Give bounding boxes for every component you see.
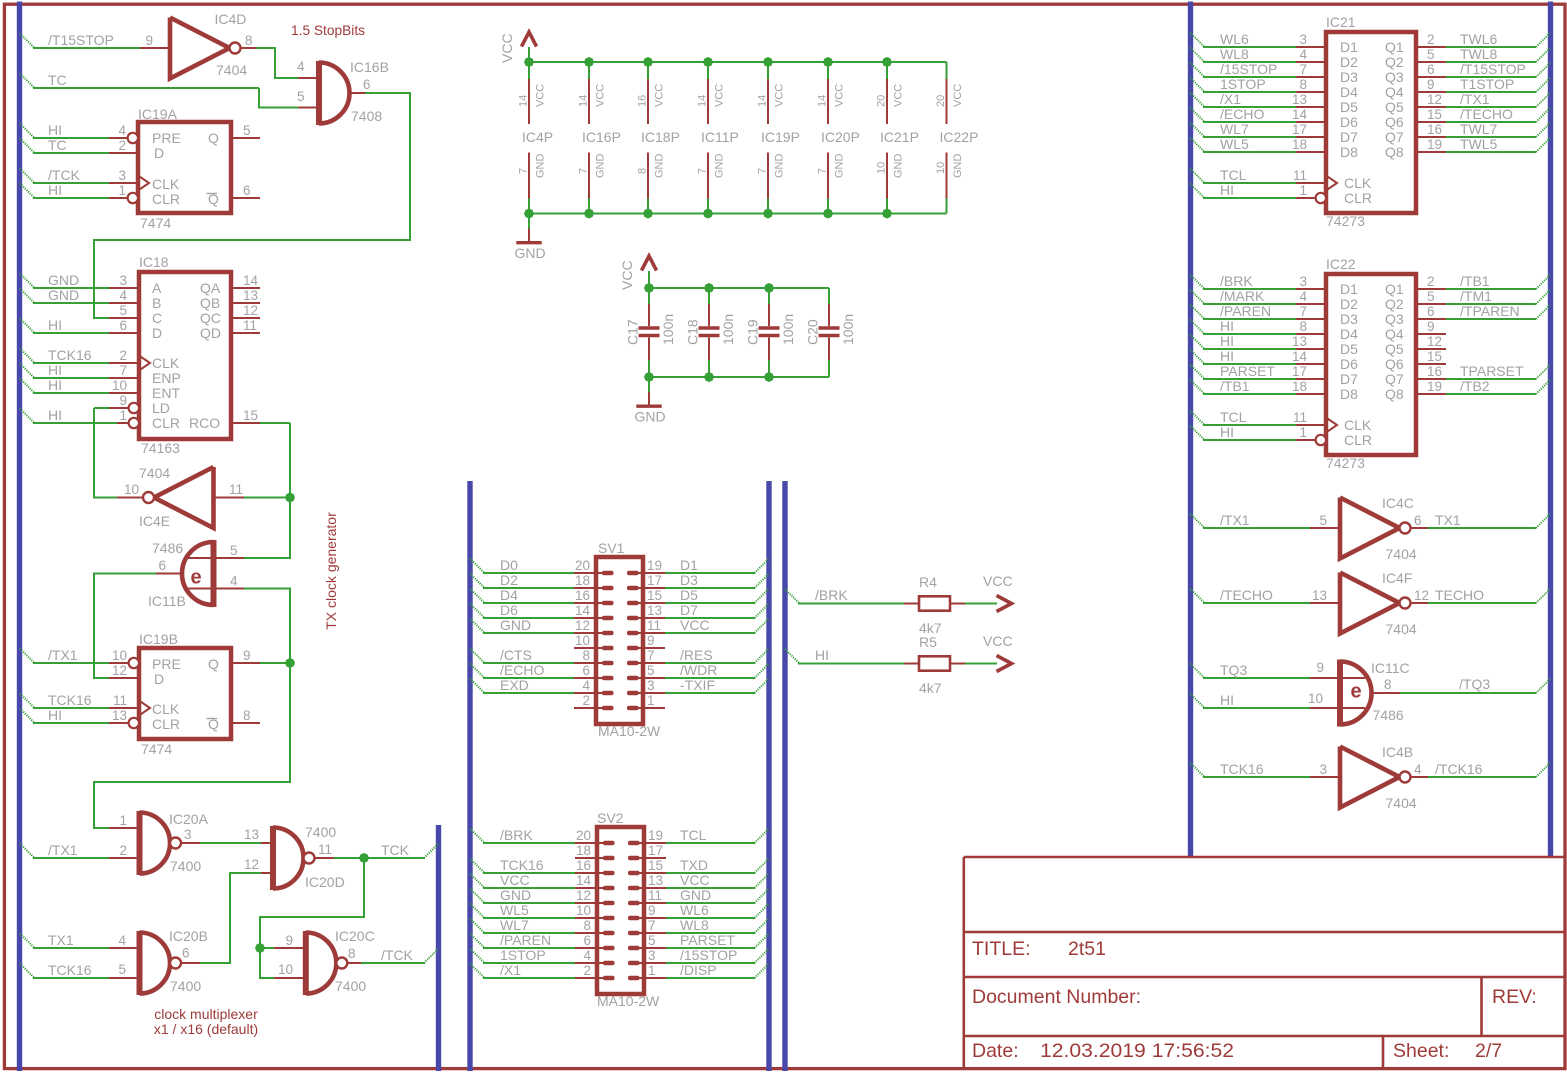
- wire /T15STOP: [20, 34, 35, 49]
- node Q junction: [285, 658, 295, 668]
- svg-text:/TB1: /TB1: [1460, 273, 1490, 289]
- bus B2 (SV left): [467, 481, 472, 1071]
- wire TQ3 to IC11C: [1190, 664, 1205, 679]
- svg-text:19: 19: [647, 558, 662, 573]
- svg-text:Q7: Q7: [1385, 129, 1404, 145]
- wire IC20A out to IC20D pin 13: [181, 842, 200, 844]
- wire HI to IC19A PRE: [20, 124, 35, 139]
- svg-text:11: 11: [243, 318, 257, 333]
- svg-text:HI: HI: [48, 407, 62, 423]
- svg-text:7: 7: [119, 363, 127, 378]
- node VCC rail junction IC16P: [584, 57, 594, 67]
- svg-text:D: D: [152, 325, 162, 341]
- pin 10 stub (SV2): [575, 917, 605, 919]
- wire WL5 (SV2 pin 10): [470, 904, 485, 919]
- node VCC rail junction IC11P: [703, 57, 713, 67]
- svg-text:PARSET: PARSET: [1220, 363, 1275, 379]
- svg-text:13: 13: [647, 603, 662, 618]
- svg-text:Q: Q: [208, 130, 219, 146]
- svg-text:Q6: Q6: [1385, 356, 1404, 372]
- svg-text:2: 2: [118, 138, 126, 153]
- svg-text:7: 7: [697, 168, 709, 174]
- svg-text:SV2: SV2: [597, 810, 624, 826]
- svg-text:/TM1: /TM1: [1460, 288, 1492, 304]
- svg-text:8: 8: [1384, 677, 1392, 692]
- svg-text:/T15STOP: /T15STOP: [1460, 61, 1526, 77]
- svg-text:17: 17: [1292, 122, 1307, 137]
- bus B6 (IC21/IC22 left): [1188, 2, 1193, 858]
- wire IC20B out: [181, 962, 200, 964]
- svg-text:QD: QD: [200, 325, 221, 341]
- svg-text:IC22: IC22: [1326, 256, 1356, 272]
- connector SV2: [597, 827, 644, 994]
- svg-text:8: 8: [243, 708, 251, 723]
- inverter IC4F: [1310, 602, 1340, 604]
- pin 11 CLK (IC19B): [109, 707, 139, 709]
- wire HI to IC19B CLR: [20, 709, 35, 724]
- svg-text:3: 3: [648, 948, 656, 963]
- svg-text:HI: HI: [1220, 182, 1234, 198]
- svg-text:IC19B: IC19B: [139, 631, 178, 647]
- wire /TCK to IC19A CLK: [20, 169, 35, 184]
- svg-text:2: 2: [1427, 32, 1435, 47]
- svg-text:4: 4: [1299, 289, 1307, 304]
- connector SV2 pin 8 contact: [603, 931, 615, 936]
- svg-text:15: 15: [243, 408, 258, 423]
- wire TCK16 to IC20B pin 5: [20, 964, 35, 979]
- pin 6 D (IC18): [109, 332, 139, 334]
- svg-text:/RES: /RES: [680, 647, 713, 663]
- wire R4 to VCC: [965, 603, 997, 605]
- wire /BRK to IC22 D1: [1190, 275, 1205, 290]
- pin 1 CLR (IC18): [117, 422, 129, 424]
- node VCC rail junction IC21P: [882, 57, 892, 67]
- svg-text:5: 5: [648, 933, 656, 948]
- wire /TB1 to IC22 D8: [1190, 380, 1205, 395]
- pin 2 CLK (IC18): [109, 362, 139, 364]
- wire VCC (SV2 pin 13): [666, 887, 755, 889]
- pin 13 stub (SV2): [636, 887, 666, 889]
- svg-text:IC11B: IC11B: [148, 593, 186, 609]
- svg-text:7: 7: [817, 168, 829, 174]
- svg-text:7400: 7400: [170, 858, 201, 874]
- svg-text:13: 13: [1312, 588, 1327, 603]
- svg-text:16: 16: [1427, 364, 1442, 379]
- svg-text:16: 16: [576, 858, 591, 873]
- connector SV2 pin 1 contact: [628, 976, 640, 981]
- connector SV2 pin 16 contact: [603, 871, 615, 876]
- node RCO junction: [285, 493, 295, 503]
- power symbol VCC (cap bank): [642, 256, 657, 271]
- svg-text:11: 11: [113, 693, 127, 708]
- svg-text:14: 14: [576, 873, 592, 888]
- wire TCK to bus: [364, 857, 425, 859]
- svg-text:1: 1: [647, 693, 655, 708]
- svg-text:GND: GND: [654, 154, 666, 179]
- wire WL7 (SV2 pin 8): [470, 919, 485, 934]
- pin 9 Q4 (IC22): [1416, 333, 1446, 335]
- wire HI to IC18 D: [20, 319, 35, 334]
- pin 14 stub (SV2): [575, 887, 605, 889]
- wire RCO to junction: [260, 422, 290, 424]
- svg-text:D3: D3: [680, 572, 698, 588]
- svg-text:/15STOP: /15STOP: [1220, 61, 1277, 77]
- svg-text:C20: C20: [805, 319, 821, 345]
- svg-text:15: 15: [1427, 107, 1442, 122]
- wire EXD (SV1 pin 4): [470, 679, 485, 694]
- svg-text:12: 12: [576, 888, 591, 903]
- svg-text:12: 12: [112, 663, 127, 678]
- pin 13 stub (SV1): [635, 617, 665, 619]
- svg-text:16: 16: [575, 588, 590, 603]
- inverter IC4E: [154, 467, 214, 528]
- wire TCK junction down to IC20C: [260, 858, 364, 948]
- pin 19 Q8 (IC21): [1416, 151, 1446, 153]
- wire GND (SV2 pin 12): [470, 889, 485, 904]
- connector SV2 pin 7 contact: [628, 931, 640, 936]
- svg-text:/CTS: /CTS: [500, 647, 532, 663]
- svg-text:14: 14: [518, 95, 530, 107]
- pin 11 stub (SV2): [636, 902, 666, 904]
- svg-text:19: 19: [648, 828, 663, 843]
- svg-text:HI: HI: [1220, 348, 1234, 364]
- svg-text:7400: 7400: [305, 824, 336, 840]
- svg-text:/PAREN: /PAREN: [500, 932, 551, 948]
- wire HI to IC22 D4: [1190, 320, 1205, 335]
- power pins IC16P: [588, 62, 590, 79]
- svg-text:VCC: VCC: [619, 260, 635, 290]
- svg-text:18: 18: [575, 573, 590, 588]
- svg-text:VCC: VCC: [714, 84, 726, 107]
- pin 1 CLR (IC19A): [109, 197, 128, 199]
- svg-text:clock multiplexer: clock multiplexer: [154, 1006, 258, 1022]
- pin 18 D8 (IC22): [1296, 393, 1326, 395]
- pin 11 stub (SV1): [635, 632, 665, 634]
- svg-text:GND: GND: [48, 272, 79, 288]
- svg-text:VCC: VCC: [654, 84, 666, 107]
- svg-text:/TCK: /TCK: [48, 167, 81, 183]
- svg-text:17: 17: [647, 573, 662, 588]
- svg-text:20: 20: [935, 95, 947, 107]
- svg-text:5: 5: [1319, 513, 1327, 528]
- node GND rail junction IC18P: [643, 209, 653, 219]
- connector SV1 pin 1 contact: [627, 706, 639, 711]
- connector SV2 pin 15 contact: [628, 871, 640, 876]
- svg-text:100n: 100n: [660, 314, 676, 345]
- svg-text:14: 14: [1292, 349, 1308, 364]
- wire IC4E in from junction: [216, 497, 245, 499]
- svg-text:9: 9: [1316, 660, 1324, 675]
- wire /RES (SV1 pin 7): [665, 662, 755, 664]
- svg-text:8: 8: [1299, 77, 1307, 92]
- connector SV2 pin 14 contact: [603, 886, 615, 891]
- svg-text:TC: TC: [48, 72, 67, 88]
- svg-text:10: 10: [576, 903, 591, 918]
- wire D3 (SV1 pin 17): [665, 587, 755, 589]
- power symbol VCC (R4): [997, 596, 1012, 612]
- svg-text:/BRK: /BRK: [815, 587, 848, 603]
- pin 2 stub (SV1): [574, 707, 604, 709]
- svg-text:Q3: Q3: [1385, 69, 1404, 85]
- pin 2 D (IC19A): [109, 152, 138, 154]
- svg-text:5: 5: [230, 543, 238, 558]
- svg-text:3: 3: [1319, 762, 1327, 777]
- svg-text:12: 12: [243, 303, 258, 318]
- svg-text:D: D: [154, 671, 164, 687]
- pin 5 stub (SV2): [636, 947, 666, 949]
- svg-text:100n: 100n: [840, 314, 856, 345]
- svg-text:19: 19: [1427, 379, 1442, 394]
- node VCC rail junction IC4P: [524, 57, 534, 67]
- pin 16 Q7 (IC21): [1416, 136, 1446, 138]
- wire IC16B out to IC18 pin C: [350, 92, 365, 94]
- wire HI to R5: [785, 649, 800, 664]
- power pins IC18P: [647, 62, 649, 79]
- svg-text:TWL5: TWL5: [1460, 136, 1498, 152]
- svg-text:7: 7: [578, 168, 590, 174]
- pin 9 stub (SV1): [635, 647, 665, 649]
- svg-text:VCC: VCC: [774, 84, 786, 107]
- svg-text:/TX1: /TX1: [1220, 512, 1250, 528]
- wire GND to IC18 A: [20, 274, 35, 289]
- svg-text:PRE: PRE: [152, 656, 181, 672]
- pin 17 D7 (IC22): [1296, 378, 1326, 380]
- svg-text:Q1: Q1: [1385, 281, 1404, 297]
- wire /X1 to IC21 D5: [1190, 93, 1205, 108]
- svg-text:QC: QC: [200, 310, 221, 326]
- wire TXD (SV2 pin 15): [666, 872, 755, 874]
- svg-text:GND: GND: [500, 887, 531, 903]
- nand gate IC20A: [137, 811, 143, 875]
- wire IC11B pin4 to Q junction: [187, 588, 244, 590]
- pin 12 Q5 (IC21): [1416, 106, 1446, 108]
- wire D6 (SV1 pin 14): [470, 604, 485, 619]
- svg-text:IC16P: IC16P: [582, 129, 621, 145]
- svg-text:TECHO: TECHO: [1435, 587, 1484, 603]
- connector SV2 pin 12 contact: [603, 901, 615, 906]
- connector SV1 pin 10 contact: [602, 646, 614, 651]
- svg-text:Q2: Q2: [1385, 296, 1404, 312]
- svg-text:-TXIF: -TXIF: [680, 677, 715, 693]
- node GND rail junction IC19P: [763, 209, 773, 219]
- power symbol VCC (R5): [997, 656, 1012, 672]
- svg-text:/TX1: /TX1: [1460, 91, 1490, 107]
- svg-text:7404: 7404: [216, 62, 247, 78]
- svg-text:/TCK: /TCK: [381, 947, 414, 963]
- svg-text:74273: 74273: [1326, 455, 1365, 471]
- svg-text:/TCK16: /TCK16: [1435, 761, 1483, 777]
- flip-flop IC19B: [139, 648, 231, 739]
- svg-text:TWL7: TWL7: [1460, 121, 1498, 137]
- svg-text:7: 7: [647, 648, 655, 663]
- svg-text:13: 13: [1292, 92, 1307, 107]
- inverter IC4C: [1310, 527, 1340, 529]
- connector SV2 pin 17 contact: [628, 856, 640, 861]
- svg-text:1: 1: [119, 813, 127, 828]
- pin 1 CLR (IC22): [1296, 439, 1316, 441]
- svg-text:D7: D7: [680, 602, 698, 618]
- svg-text:Q6: Q6: [1385, 114, 1404, 130]
- pin 19 stub (SV1): [635, 572, 665, 574]
- connector SV1 pin 20 contact: [602, 571, 614, 576]
- connector SV1 pin 11 contact: [627, 631, 639, 636]
- connector SV1 pin 6 contact: [602, 676, 614, 681]
- svg-text:IC4P: IC4P: [522, 129, 553, 145]
- svg-text:Q4: Q4: [1385, 84, 1404, 100]
- svg-text:6: 6: [1414, 513, 1422, 528]
- svg-text:TCK16: TCK16: [1220, 761, 1264, 777]
- connector SV1 pin 14 contact: [602, 616, 614, 621]
- svg-text:2t51: 2t51: [1068, 938, 1106, 960]
- svg-text:D4: D4: [1340, 326, 1358, 342]
- svg-text:7: 7: [1299, 304, 1307, 319]
- node cap rail junction top C18: [704, 283, 714, 293]
- svg-text:10: 10: [1308, 691, 1323, 706]
- svg-text:6: 6: [158, 558, 166, 573]
- svg-text:8: 8: [637, 168, 649, 174]
- connector SV1 pin 4 contact: [602, 691, 614, 696]
- wire /PAREN (SV2 pin 6): [470, 934, 485, 949]
- connector SV2 pin 13 contact: [628, 886, 640, 891]
- svg-text:16: 16: [637, 95, 649, 107]
- svg-text:LD: LD: [152, 400, 170, 416]
- svg-text:D2: D2: [1340, 54, 1358, 70]
- svg-text:/MARK: /MARK: [1220, 288, 1265, 304]
- svg-text:D6: D6: [1340, 356, 1358, 372]
- svg-text:/TX1: /TX1: [48, 647, 78, 663]
- svg-text:17: 17: [1292, 364, 1307, 379]
- pin 7 D3 (IC21): [1296, 76, 1326, 78]
- svg-text:/X1: /X1: [1220, 91, 1241, 107]
- svg-text:C19: C19: [745, 319, 761, 345]
- svg-text:14: 14: [578, 95, 590, 107]
- pin 7 ENP (IC18): [109, 377, 139, 379]
- wire /BRK (SV2 pin 20): [470, 829, 485, 844]
- svg-text:1STOP: 1STOP: [1220, 76, 1266, 92]
- wire junction to IC20C pin 9: [260, 947, 274, 949]
- svg-text:8: 8: [583, 918, 591, 933]
- svg-text:CLR: CLR: [1344, 432, 1372, 448]
- svg-text:2: 2: [1427, 274, 1435, 289]
- svg-text:1.5 StopBits: 1.5 StopBits: [291, 22, 365, 38]
- wire TWL5 from IC21 Q8: [1446, 151, 1536, 153]
- svg-text:4: 4: [582, 678, 590, 693]
- ground symbol GND (rails): [528, 214, 530, 229]
- svg-text:HI: HI: [48, 707, 62, 723]
- svg-text:HI: HI: [48, 182, 62, 198]
- svg-text:Q8: Q8: [1385, 144, 1404, 160]
- svg-text:12: 12: [1427, 334, 1442, 349]
- pin 2 stub (SV2): [575, 977, 605, 979]
- svg-text:GND: GND: [515, 245, 546, 261]
- connector SV1 pin 17 contact: [627, 586, 639, 591]
- pin 17 stub (SV1): [635, 587, 665, 589]
- wire cap GND rail: [649, 376, 829, 378]
- svg-text:D6: D6: [1340, 114, 1358, 130]
- wire /TCK to bus: [347, 962, 361, 964]
- connector SV2 pin 5 contact: [628, 946, 640, 951]
- svg-text:IC19A: IC19A: [138, 106, 178, 122]
- svg-text:4: 4: [583, 948, 591, 963]
- wire /MARK to IC22 D2: [1190, 290, 1205, 305]
- pin 18 stub (SV2): [575, 857, 605, 859]
- pin 12 QC stub (IC18): [231, 317, 260, 319]
- wire D5 (SV1 pin 15): [665, 602, 755, 604]
- svg-text:10: 10: [575, 633, 590, 648]
- wire D0 (SV1 pin 20): [470, 559, 485, 574]
- svg-text:HI: HI: [815, 647, 829, 663]
- svg-text:6: 6: [182, 946, 190, 961]
- pin 20 stub (SV1): [574, 572, 604, 574]
- svg-text:5: 5: [1427, 47, 1435, 62]
- svg-text:/PAREN: /PAREN: [1220, 303, 1271, 319]
- counter IC18 74163: [139, 272, 231, 439]
- pin 4 B (IC18): [109, 302, 139, 304]
- svg-text:WL8: WL8: [1220, 46, 1249, 62]
- wire TCK16 to IC18 CLK: [20, 349, 35, 364]
- power pins IC22P: [946, 62, 948, 79]
- pin 14 D6 (IC22): [1296, 363, 1326, 365]
- wire /X1 (SV2 pin 2): [470, 964, 485, 979]
- svg-text:Q5: Q5: [1385, 99, 1404, 115]
- wire /TM1 from IC22 Q2: [1446, 303, 1536, 305]
- connector SV2 pin 2 contact: [603, 976, 615, 981]
- wire TCL to IC22 CLK: [1190, 411, 1205, 426]
- svg-text:IC11C: IC11C: [1371, 660, 1410, 676]
- wire TWL6 from IC21 Q1: [1446, 46, 1536, 48]
- wire /PAREN to IC22 D3: [1190, 305, 1205, 320]
- svg-text:ENT: ENT: [152, 385, 180, 401]
- svg-text:TXD: TXD: [680, 857, 708, 873]
- wire IC19B Q to junction: [260, 662, 290, 664]
- pin 15 Q6 (IC21): [1416, 121, 1446, 123]
- pin 8 stub (SV1): [574, 662, 604, 664]
- svg-text:14: 14: [243, 273, 259, 288]
- capacitor C19: [768, 288, 770, 304]
- svg-text:D8: D8: [1340, 144, 1358, 160]
- pin 7 stub (SV2): [636, 932, 666, 934]
- svg-text:IC18: IC18: [139, 254, 169, 270]
- pin 12 Q5 (IC22): [1416, 348, 1446, 350]
- node VCC rail junction IC19P: [763, 57, 773, 67]
- connector SV1 pin 12 contact: [602, 631, 614, 636]
- svg-text:12: 12: [244, 857, 259, 872]
- wire HI to IC18 ENT: [20, 379, 35, 394]
- svg-text:IC20P: IC20P: [821, 129, 860, 145]
- resistor R4: [904, 603, 919, 605]
- svg-text:10: 10: [112, 648, 127, 663]
- svg-text:13: 13: [112, 708, 127, 723]
- wire /TECHO to IC4F: [1190, 589, 1205, 604]
- svg-text:R5: R5: [919, 634, 937, 650]
- svg-text:1: 1: [1299, 183, 1307, 198]
- title block frame: [964, 857, 1565, 1069]
- svg-text:100n: 100n: [720, 314, 736, 345]
- pin 10 stub (SV1): [574, 647, 604, 649]
- svg-text:IC16B: IC16B: [350, 59, 389, 75]
- svg-text:6: 6: [119, 318, 127, 333]
- svg-text:15: 15: [648, 858, 663, 873]
- pin 13 D5 (IC22): [1296, 348, 1326, 350]
- svg-text:Q8: Q8: [1385, 386, 1404, 402]
- pin 13 QB stub (IC18): [231, 302, 260, 304]
- wire HI to IC21 CLR: [1190, 184, 1205, 199]
- svg-text:GND: GND: [714, 154, 726, 179]
- wire HI to IC22 CLR: [1190, 426, 1205, 441]
- svg-text:CLR: CLR: [152, 415, 180, 431]
- svg-text:D0: D0: [500, 557, 518, 573]
- svg-text:QB: QB: [200, 295, 220, 311]
